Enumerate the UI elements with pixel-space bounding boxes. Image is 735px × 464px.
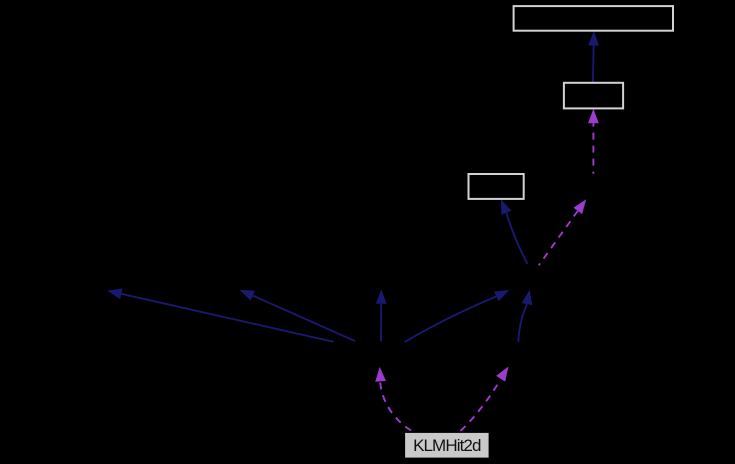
solid edge: node A to class node L2	[240, 290, 356, 341]
node box3 (empty black box)	[469, 174, 524, 199]
solid edge: box2 to box1 (vertical)	[588, 31, 599, 84]
svg-text:KLMHit2d: KLMHit2d	[413, 436, 481, 455]
dashed edge: TObject node to node X (diagonal)	[539, 199, 586, 265]
solid edge: node A to TObject node (slightly bowed)	[405, 290, 510, 342]
solid edge: TObject node to box3 (slightly bowed)	[501, 199, 528, 263]
dashed edge: node X to box2 (vertical)	[588, 109, 599, 174]
dashed edge: KLMHit2d to node A (curved left)	[375, 367, 416, 433]
node KLMHit2d (grey filled box with label)	[405, 433, 489, 458]
node box1 (top right, empty black box)	[514, 6, 673, 31]
dashed edge: KLMHit2d to node B (curved right)	[458, 367, 508, 434]
solid edge: node B to TObject node (slightly bowed)	[518, 290, 532, 342]
node box2 (empty black box)	[564, 83, 623, 109]
solid edge: node A to class node L3 (vertical)	[376, 289, 387, 341]
solid edge: node A to left class node L1	[107, 289, 333, 342]
